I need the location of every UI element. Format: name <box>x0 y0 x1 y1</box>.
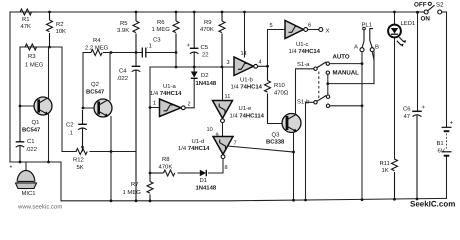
diode D2 <box>191 67 217 87</box>
svg-text:47: 47 <box>404 113 411 120</box>
transistor Q3 <box>266 114 301 146</box>
svg-text:10K: 10K <box>56 28 67 35</box>
node R5 bottom <box>135 51 138 54</box>
resistor R1 <box>14 9 38 30</box>
svg-text:R3: R3 <box>28 53 36 60</box>
diode D1 <box>178 170 217 192</box>
svg-text:MANUAL: MANUAL <box>333 70 360 77</box>
node rail pl1a <box>361 198 364 201</box>
svg-text:11: 11 <box>225 94 231 100</box>
wire 10-9 link <box>222 123 224 137</box>
wire R12 row <box>62 47 136 152</box>
svg-text:4: 4 <box>259 60 262 66</box>
svg-text:A: A <box>354 44 358 51</box>
svg-text:U1-c: U1-c <box>296 41 308 48</box>
svg-text:D2: D2 <box>201 72 209 79</box>
svg-text:R5: R5 <box>120 20 128 27</box>
svg-text:C5: C5 <box>201 44 209 51</box>
svg-text:S1-a: S1-a <box>297 61 310 68</box>
transistor Q1 <box>22 97 52 134</box>
svg-text:Q2: Q2 <box>91 81 99 88</box>
node Q1 collector junction <box>48 46 51 49</box>
wire Q1 base column <box>20 47 35 106</box>
node rail q2e <box>110 199 113 202</box>
wire AUTO contact <box>330 63 363 65</box>
wire U1-e pin11 <box>222 67 224 101</box>
wire main collector bus <box>111 52 176 54</box>
wire R10 to Q3 base <box>268 123 284 125</box>
svg-text:47K: 47K <box>21 23 32 30</box>
svg-text:R9: R9 <box>204 19 212 26</box>
svg-text:1N4148: 1N4148 <box>196 185 217 192</box>
svg-text:.022: .022 <box>26 146 37 153</box>
node A s1b <box>361 104 364 107</box>
switch S2 <box>414 2 447 23</box>
node R7 R8 junction <box>149 172 152 175</box>
svg-text:5K: 5K <box>77 164 84 171</box>
svg-text:S2: S2 <box>436 2 444 9</box>
capacitor C1 <box>16 107 37 162</box>
svg-text:1/4 74HC14: 1/4 74HC14 <box>289 48 321 55</box>
op-amp U1-a <box>150 83 191 117</box>
node Q2 emitter crossing <box>110 150 113 153</box>
resistor R10 <box>265 66 289 123</box>
svg-text:3.9K: 3.9K <box>117 27 129 34</box>
resistor R2 <box>47 11 67 47</box>
node U1-a input <box>149 106 152 109</box>
svg-text:1/4 74HC14: 1/4 74HC14 <box>231 84 263 91</box>
node R6 bottom <box>175 66 178 69</box>
node rail r7 <box>149 200 152 203</box>
svg-text:1/4 74HC114: 1/4 74HC114 <box>230 113 265 120</box>
svg-text:8: 8 <box>225 165 228 171</box>
svg-text:3: 3 <box>227 60 230 66</box>
plug PL1 <box>354 22 379 52</box>
svg-text:1K: 1K <box>382 167 389 174</box>
svg-text:1N4148: 1N4148 <box>196 80 217 87</box>
svg-text:1 MEG: 1 MEG <box>152 26 171 33</box>
svg-text:MIC1: MIC1 <box>22 190 36 197</box>
transistor Q2 <box>86 81 112 117</box>
svg-text:1 MEG: 1 MEG <box>25 62 44 69</box>
node rail c4 <box>135 199 138 202</box>
svg-text:SeekIC.com: SeekIC.com <box>410 200 455 209</box>
node rail q3e <box>292 199 295 202</box>
wire pin7 ground link <box>228 146 294 152</box>
svg-text:R11: R11 <box>380 160 390 167</box>
wire PL1 B down <box>372 52 374 84</box>
wire bottom ground rail <box>61 198 447 200</box>
node Q2 base <box>82 107 85 110</box>
op-amp U1-b <box>227 57 263 91</box>
node Q1 base <box>19 105 22 108</box>
node R4 right <box>110 51 113 54</box>
resistor R11 <box>380 159 398 199</box>
svg-text:B1: B1 <box>437 140 444 147</box>
svg-text:C1: C1 <box>27 138 35 145</box>
switch S1 manual contact <box>326 71 329 95</box>
svg-text:R12: R12 <box>73 157 84 164</box>
capacitor C6 <box>403 12 426 199</box>
svg-text:BC338: BC338 <box>266 139 285 146</box>
svg-text:X: X <box>326 28 330 35</box>
svg-text:2.2 MEG: 2.2 MEG <box>85 45 109 52</box>
svg-text:470K: 470K <box>200 26 214 33</box>
wire U1-a input column <box>150 67 160 173</box>
svg-text:R10: R10 <box>274 82 286 89</box>
microphone MIC1 <box>10 162 37 197</box>
wire LED to R11 <box>394 38 396 159</box>
svg-text:1/4 74HC14: 1/4 74HC14 <box>178 145 210 152</box>
svg-text:R1: R1 <box>22 16 30 23</box>
wire left frame <box>9 12 11 162</box>
wire R6 to input row <box>175 53 177 68</box>
wire Q3 emitter <box>293 133 295 201</box>
wire R3 top <box>20 46 62 48</box>
wire U1-d output to R8 <box>209 159 224 173</box>
op-amp U1-d <box>178 137 233 172</box>
capacitor C3 <box>142 37 161 58</box>
node R6 mid <box>175 51 178 54</box>
resistor R8 <box>150 156 175 176</box>
node C1 bottom <box>19 161 22 164</box>
svg-text:6V: 6V <box>438 148 445 155</box>
op-amp U1-c <box>270 21 321 56</box>
svg-text:470Ω: 470Ω <box>274 90 289 97</box>
node U1-b out <box>266 65 269 68</box>
svg-text:U1-d: U1-d <box>192 138 205 145</box>
node A auto <box>361 62 364 65</box>
svg-text:6: 6 <box>308 23 311 29</box>
svg-text:14: 14 <box>241 51 247 57</box>
svg-text:+: + <box>187 43 191 49</box>
svg-text:C6: C6 <box>403 106 411 113</box>
wire mic drop to ground rail <box>60 162 62 201</box>
svg-text:R4: R4 <box>93 37 101 44</box>
wire U1-b pin14 <box>244 12 246 57</box>
svg-text:*: * <box>10 165 13 172</box>
capacitor C5 <box>187 11 209 67</box>
svg-text:R8: R8 <box>162 156 170 163</box>
capacitor C4 <box>117 53 141 201</box>
node R9 bottom <box>221 66 224 69</box>
svg-text:1/4 74HC14: 1/4 74HC14 <box>150 90 182 97</box>
wire Q1 emitter <box>48 115 50 163</box>
svg-text:2: 2 <box>188 102 191 108</box>
resistor R3 <box>25 44 44 69</box>
node rail s1b <box>304 199 307 202</box>
op-amp U1-e <box>213 94 265 123</box>
node rail c6 <box>416 198 419 201</box>
svg-text:OFF: OFF <box>414 2 427 9</box>
switch S1-b <box>297 95 330 108</box>
svg-text:1: 1 <box>153 101 156 107</box>
svg-text:470K: 470K <box>159 164 173 171</box>
svg-text:+: + <box>422 105 426 111</box>
wire top rail <box>10 11 423 13</box>
svg-text:www.seekic.com: www.seekic.com <box>17 204 62 211</box>
svg-text:U1-a: U1-a <box>163 83 176 90</box>
svg-text:B: B <box>375 44 379 51</box>
svg-text:7: 7 <box>234 141 237 147</box>
node D2 top <box>193 66 196 69</box>
wire MANUAL row to PL1 B <box>328 52 374 84</box>
svg-text:C3: C3 <box>153 37 161 44</box>
resistor R5 <box>117 11 139 53</box>
wire Q2 base column <box>83 53 95 109</box>
svg-text:U1-b: U1-b <box>240 77 253 84</box>
wire Q2 emitter <box>110 117 112 201</box>
svg-text:R2: R2 <box>56 21 64 28</box>
wire U1-a output <box>185 79 194 108</box>
svg-text:U1-e: U1-e <box>239 105 252 112</box>
resistor R12 <box>73 149 87 172</box>
svg-text:BC547: BC547 <box>22 127 41 134</box>
wire Q2 collector <box>109 53 111 101</box>
svg-text:R6: R6 <box>157 19 165 26</box>
svg-text:C4: C4 <box>119 68 127 75</box>
svg-text:.1: .1 <box>147 43 152 50</box>
wire S1-b lower contact <box>330 105 362 107</box>
node X terminal <box>308 28 330 35</box>
wire S1-b common to ground <box>306 102 314 200</box>
svg-text:Q1: Q1 <box>32 119 40 126</box>
wire S2 to battery <box>446 12 448 127</box>
svg-text:LED1: LED1 <box>401 20 416 27</box>
wire Q3 collector <box>296 69 314 115</box>
svg-text:BC547: BC547 <box>86 89 105 96</box>
wire U1-b out to U1-c in <box>258 30 285 67</box>
svg-text:ON: ON <box>421 16 431 23</box>
resistor R7 <box>123 173 154 201</box>
wire Q1 collector <box>48 47 50 98</box>
node S2 rail <box>416 11 419 14</box>
node Q3 emitter pin7 <box>292 151 295 154</box>
wire input row <box>150 66 234 68</box>
wire mic row <box>10 161 61 163</box>
svg-text:10: 10 <box>207 127 213 133</box>
node Q1 emitter <box>47 161 50 164</box>
svg-text:22: 22 <box>202 52 209 59</box>
node rail r11 <box>393 198 396 201</box>
capacitor C2 <box>66 110 87 152</box>
resistor R9 <box>200 11 225 67</box>
svg-text:1 MEG: 1 MEG <box>123 189 142 196</box>
svg-text:+: + <box>450 121 454 127</box>
wire dashed gang link <box>318 72 320 100</box>
resistor R6 <box>152 11 180 53</box>
wire PL1 A column <box>361 52 363 200</box>
svg-text:D1: D1 <box>200 177 208 184</box>
svg-text:Q3: Q3 <box>272 132 281 139</box>
svg-text:R7: R7 <box>131 181 139 188</box>
switch S1-a <box>297 61 329 70</box>
svg-text:AUTO: AUTO <box>333 54 350 61</box>
LED LED1 <box>388 11 415 47</box>
svg-text:.1: .1 <box>68 130 73 137</box>
svg-text:.022: .022 <box>117 75 128 82</box>
svg-text:C2: C2 <box>66 122 74 129</box>
battery B1 <box>437 121 454 199</box>
resistor R4 <box>83 37 111 56</box>
svg-text:5: 5 <box>270 23 273 29</box>
